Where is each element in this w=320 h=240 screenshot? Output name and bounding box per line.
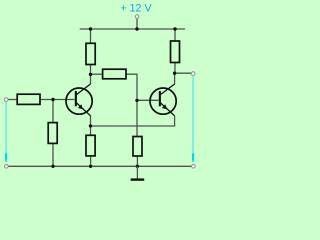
terminal: bottom left (5, 165, 9, 169)
terminal: bottom right (192, 165, 196, 169)
wire: collector node to output terminal (175, 72, 192, 74)
terminal: +12V supply (135, 15, 139, 19)
terminal: output (right) (191, 72, 195, 76)
transistor Q1 (NPN, left) (66, 84, 92, 116)
terminal: input (left) (4, 98, 8, 102)
wire: ground rail (8, 165, 191, 167)
node: Q2 base / R6 (135, 99, 138, 102)
node: Q1 collector / R5 (89, 73, 92, 76)
wire: R1 bottom to Q1 collector (90, 65, 92, 85)
wire: rail to R1 (90, 29, 92, 43)
wire: Q2 emitter vertical (174, 116, 176, 127)
node: rail/+12V (135, 27, 138, 30)
wire: emitter bus Q1 to Q2 (91, 125, 175, 127)
wire: Q2 base node down to R6 (crosses emitter bus, no junction) (136, 100, 138, 136)
cyan arrowhead right (192, 153, 194, 163)
node: R2 bottom / output (173, 72, 176, 75)
node: ground rail / ground symbol (136, 165, 139, 168)
wire: R4 bottom to ground rail (90, 156, 92, 166)
wire: rail to R2 (174, 29, 176, 41)
resistor R4 (emitter) (86, 135, 95, 156)
wire: R5 right, corner down to Q2 base node (126, 74, 137, 100)
node: ground rail / R4 (89, 165, 92, 168)
resistor R3 (base bias lower) (48, 123, 57, 144)
wire: Rin to Q1 base (through node) (40, 99, 75, 101)
ground symbol (136, 166, 138, 179)
svg-text:+ 12 V: + 12 V (120, 3, 152, 15)
node: rail/R2 (173, 27, 176, 30)
node: Q1 emitter / R4 (89, 124, 92, 127)
node: Q1 base / R3 (51, 98, 54, 101)
wire: R3 bottom to ground rail (52, 143, 54, 166)
wire cyan left (input to bottom-left terminal) (5, 102, 7, 162)
wire: emitter node to R4 (90, 126, 92, 135)
resistor R6 (Q2 base lower) (133, 137, 142, 157)
resistor R1 (left collector load) (86, 43, 95, 64)
wire: R2 bottom to collector node (174, 63, 176, 74)
node: rail/R1 (89, 27, 92, 30)
wire: Q1 emitter vertical (90, 115, 92, 126)
resistor R2 (right collector load) (171, 41, 180, 63)
wire cyan right (output to bottom-right terminal) (192, 76, 194, 162)
cyan arrowhead left (5, 153, 7, 163)
wire: input terminal to Rin (8, 99, 18, 101)
resistor R5 (coupling, horizontal) (103, 69, 126, 79)
wire: collector node to R5 (91, 73, 103, 75)
node: ground rail / R3 (51, 165, 54, 168)
wire: base node down to R3 (52, 100, 54, 123)
wire: collector node down to Q2 (174, 73, 176, 84)
wire: R6 bottom to ground rail (136, 156, 138, 166)
transistor Q2 (NPN, right) (150, 84, 176, 116)
resistor Rin (input, horizontal) (17, 94, 40, 104)
wire: +12V terminal stub (136, 18, 138, 29)
wire: +12V rail (80, 28, 185, 30)
wire: Q2 base node to base (137, 99, 159, 101)
